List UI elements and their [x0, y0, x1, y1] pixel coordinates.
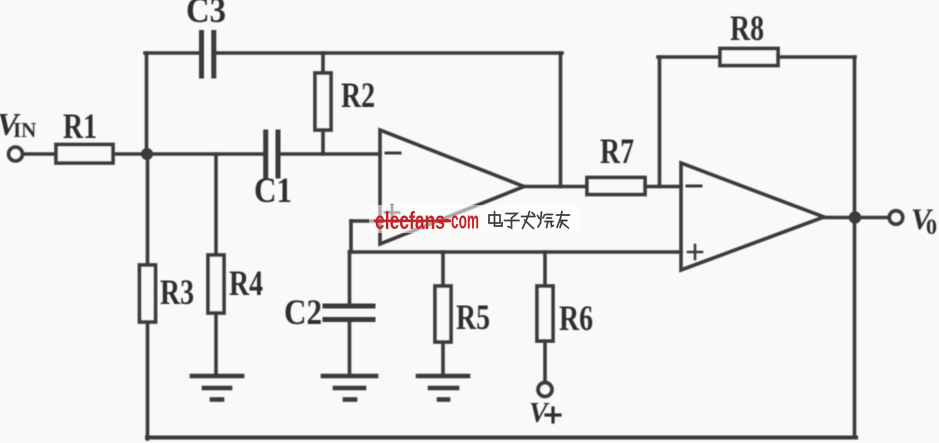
node A (input summing node)	[141, 148, 153, 160]
resistor R4	[208, 255, 224, 313]
svg-text:C3: C3	[186, 0, 226, 30]
terminal V+	[538, 383, 552, 397]
wire R1 to C1 (input line)	[113, 152, 263, 156]
input terminal VIN	[9, 147, 23, 161]
wire R4 top stub from input line	[214, 154, 218, 255]
wire R8 left vertical from U2 inverting node	[658, 57, 662, 187]
wire R2 bottom stub to input line	[321, 130, 325, 154]
terminal V0	[889, 211, 903, 225]
resistor R3	[140, 265, 156, 322]
wire top rail left segment to C3	[145, 51, 199, 55]
svg-text:com: com	[451, 208, 479, 235]
wire R5 top stub	[441, 252, 445, 286]
svg-text:R6: R6	[559, 298, 593, 338]
wire C2 top stub	[348, 252, 352, 304]
ground (R5)	[418, 376, 468, 400]
capacitor C3	[202, 33, 214, 77]
wire VIN terminal to R1	[23, 152, 56, 156]
op-amp U1	[380, 130, 524, 244]
wire output node down to bottom feedback rail	[853, 218, 857, 438]
U2 plus pin mark	[688, 245, 702, 259]
svg-text:R5: R5	[456, 297, 490, 337]
wire R2 top stub	[321, 53, 325, 73]
svg-text:IN: IN	[13, 118, 36, 142]
wire R7 to op-amp U2 inverting input	[645, 185, 681, 189]
resistor R6	[537, 286, 553, 341]
svg-text:0: 0	[926, 214, 937, 239]
wire R3 bottom to bottom rail	[146, 322, 150, 439]
svg-text:R7: R7	[600, 131, 634, 171]
wire U1 output to R7	[524, 185, 587, 189]
U1 minus pin mark	[386, 152, 400, 155]
wire U1 plus input down to bottom rail	[349, 221, 353, 252]
svg-text:R2: R2	[341, 75, 375, 115]
node B (output node)	[849, 211, 861, 223]
U2 minus pin mark	[687, 185, 701, 188]
watermark background	[369, 205, 579, 233]
wire R6 bottom to V+ terminal	[543, 341, 547, 382]
wire R8 left horizontal	[658, 55, 720, 59]
resistor R7	[587, 178, 645, 195]
wire feedback vertical down to op-amp U1 output	[559, 53, 563, 187]
char 子	[505, 214, 520, 229]
watermark chinese text 电子发烧友	[489, 212, 570, 229]
char 发	[522, 212, 536, 229]
resistor R2	[315, 73, 331, 130]
wire R4 bottom to ground	[214, 313, 218, 374]
svg-text:R4: R4	[229, 263, 263, 303]
wire R5 bottom to ground	[441, 342, 445, 374]
wire R8 right vertical down to output node	[853, 57, 857, 218]
capacitor C1	[266, 132, 278, 176]
wire C1 to op-amp U1 inverting input	[280, 152, 380, 156]
resistor R1	[56, 145, 113, 164]
resistor R5	[435, 286, 451, 342]
capacitor C2	[325, 306, 373, 320]
wire node A down to R3	[146, 154, 150, 265]
wire R8 right horizontal	[778, 55, 855, 59]
watermark strikethrough	[374, 220, 451, 223]
ground (C2)	[323, 376, 376, 400]
ground (R4)	[192, 376, 242, 400]
char 友	[557, 212, 570, 229]
char 烧	[538, 212, 554, 228]
watermark elecfans.com	[375, 207, 479, 235]
wire bottom rail (plus input bus)	[350, 250, 682, 254]
U1 plus pin mark	[385, 206, 399, 220]
svg-text:R1: R1	[63, 106, 97, 146]
wire U1 non-inverting input stub	[351, 219, 380, 223]
wire C2 bottom to ground	[348, 322, 352, 374]
resistor R8	[720, 49, 778, 66]
svg-text:C2: C2	[284, 292, 322, 332]
svg-text:R8: R8	[730, 8, 764, 48]
svg-text:R3: R3	[160, 272, 194, 312]
wire R6 top stub	[543, 252, 547, 286]
char 电	[489, 212, 502, 227]
wire node A up to top feedback rail	[145, 53, 149, 154]
op-amp U2	[681, 163, 824, 270]
wire top rail C3 to feedback corner	[216, 51, 562, 55]
wire bottom feedback rail	[147, 436, 856, 440]
svg-text:C1: C1	[254, 170, 292, 210]
wire U2 output to node	[824, 216, 888, 220]
